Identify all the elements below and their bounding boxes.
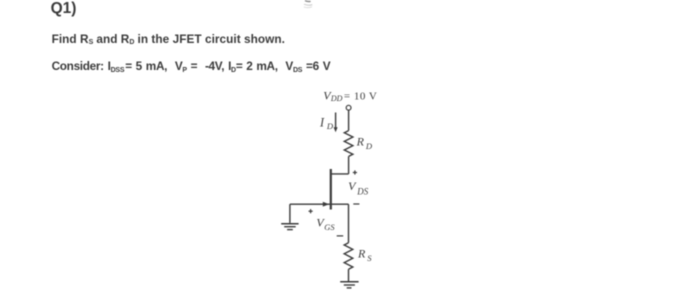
svg-text:R: R	[356, 134, 365, 148]
svg-text:I: I	[319, 115, 325, 129]
svg-text:R: R	[357, 247, 366, 261]
svg-text:DD: DD	[330, 94, 343, 103]
svg-text:DS: DS	[356, 186, 368, 196]
svg-text:D: D	[365, 141, 373, 151]
svg-text:V: V	[348, 179, 357, 193]
svg-text:D: D	[326, 121, 334, 131]
svg-text:S: S	[367, 253, 372, 263]
svg-text:= 10 V: = 10 V	[344, 91, 377, 103]
svg-text:GS: GS	[324, 223, 335, 232]
